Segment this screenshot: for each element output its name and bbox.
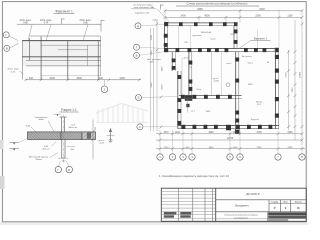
stage table bbox=[268, 200, 270, 212]
section bubble G bbox=[55, 166, 61, 172]
wall verticals bbox=[29, 38, 31, 60]
bottom dim row C bbox=[156, 148, 305, 150]
svg-text:910: 910 bbox=[99, 77, 104, 80]
left dim chain of plan bbox=[150, 28, 152, 131]
svg-text:16: 16 bbox=[297, 206, 300, 210]
svg-text:3300: 3300 bbox=[151, 34, 153, 40]
svg-text:Р: Р bbox=[274, 206, 276, 210]
top extension lines bbox=[164, 10, 166, 23]
piles on H2 bbox=[164, 48, 168, 52]
svg-text:1500: 1500 bbox=[76, 77, 82, 80]
svg-text:1000: 1000 bbox=[233, 147, 239, 149]
piles on V right bbox=[275, 55, 279, 59]
svg-text:шов обетонить t-АБ: шов обетонить t-АБ bbox=[134, 6, 154, 9]
opening circle marker bbox=[226, 83, 230, 87]
wall faint bottom line bbox=[41, 75, 101, 77]
wall H1 top bbox=[164, 22, 237, 24]
grid bubble G left bbox=[134, 44, 140, 50]
watermark blob bbox=[96, 104, 148, 123]
wall V right bbox=[274, 48, 276, 128]
top dim row 1 bbox=[165, 10, 302, 12]
svg-text:Мол.с.ф.: Мол.с.ф. bbox=[69, 126, 78, 129]
svg-text:1100: 1100 bbox=[287, 15, 293, 18]
svg-text:0-74: 0-74 bbox=[11, 71, 16, 73]
svg-text:Фрагмент 1: Фрагмент 1 bbox=[55, 9, 73, 13]
svg-text:Д: Д bbox=[137, 24, 139, 28]
doc number row bbox=[216, 199, 307, 201]
svg-text:2630: 2630 bbox=[162, 84, 164, 90]
svg-text:1400: 1400 bbox=[180, 15, 186, 18]
organization dark bars bbox=[267, 212, 269, 222]
svg-text:3790: 3790 bbox=[256, 132, 262, 134]
grid bubble A left bbox=[137, 124, 143, 130]
piles on H3 bbox=[181, 95, 185, 99]
svg-text:4000: 4000 bbox=[208, 132, 214, 134]
wall inner line bbox=[41, 44, 101, 46]
porch stub below bottom wall bbox=[234, 129, 236, 134]
wall H3 internal bbox=[179, 94, 242, 96]
wall lower line B bbox=[26, 65, 101, 67]
piles on V left bbox=[164, 34, 168, 38]
elevation marks left of beam bbox=[10, 142, 20, 144]
wall H2 main bbox=[164, 47, 279, 49]
svg-text:Разрез 1-1: Разрез 1-1 bbox=[61, 108, 77, 112]
svg-text:пол.1: пол.1 bbox=[227, 63, 233, 65]
right dim chains bbox=[288, 50, 290, 130]
svg-text:100мм: 100мм bbox=[35, 159, 42, 161]
wall mid segment line bbox=[58, 49, 88, 51]
svg-text:2Отв. верх: 2Отв. верх bbox=[8, 69, 20, 71]
extension line for 2390 dim bbox=[257, 30, 259, 48]
top dimension line bbox=[17, 23, 101, 25]
interior pier bbox=[186, 104, 189, 107]
svg-text:пом.3: пом.3 bbox=[247, 63, 253, 65]
svg-text:-0.020: -0.020 bbox=[213, 81, 220, 83]
wall V left upper bbox=[163, 23, 165, 52]
dark patch right end bbox=[87, 132, 91, 138]
grid bubbles bottom row bbox=[157, 154, 305, 160]
svg-text:2Отв.: 2Отв. bbox=[183, 57, 189, 59]
svg-text:6380: 6380 bbox=[197, 8, 203, 11]
pile below beam bbox=[61, 140, 63, 159]
grillage beam right part bbox=[82, 132, 96, 140]
svg-text:7850: 7850 bbox=[292, 87, 294, 93]
svg-text:ДП-008-Р: ДП-008-Р bbox=[246, 192, 260, 196]
svg-text:пол.2: пол.2 bbox=[210, 38, 216, 40]
signature smudges bbox=[164, 212, 177, 214]
svg-text:Фундамент: Фундамент bbox=[235, 204, 250, 208]
column above grillage bbox=[61, 117, 63, 132]
svg-text:1250: 1250 bbox=[164, 147, 170, 149]
left edge scan smudge B bbox=[0, 176, 5, 189]
svg-text:1570: 1570 bbox=[163, 132, 169, 134]
top dim row 2 bbox=[165, 16, 302, 18]
wall V jog at right of H1 bbox=[233, 26, 235, 49]
level mark top-left of plan bbox=[160, 5, 162, 10]
svg-text:(столбчатых): (столбчатых) bbox=[234, 217, 247, 219]
piles on V2 bbox=[177, 75, 181, 79]
left edge scan smudge A bbox=[0, 140, 4, 149]
elevation mark at column top bbox=[57, 114, 59, 116]
bottom dimension line bbox=[25, 79, 141, 81]
svg-text:910: 910 bbox=[29, 77, 34, 80]
svg-text:Асб.раств.: Асб.раств. bbox=[242, 55, 252, 58]
svg-text:Листов: Листов bbox=[295, 202, 303, 204]
wall lower line A bbox=[26, 59, 101, 61]
svg-text:2400x1500: 2400x1500 bbox=[201, 32, 212, 34]
level mark between labels bbox=[61, 19, 63, 25]
leaders from dim to wall bbox=[28, 25, 32, 41]
wall V2 lower-left bbox=[177, 71, 179, 129]
section bubble V bbox=[66, 166, 72, 172]
wall V2b inner bbox=[188, 52, 190, 99]
svg-text:Схема расположения ростверков: Схема расположения ростверков bbox=[224, 215, 259, 217]
svg-text:Стадия: Стадия bbox=[271, 202, 278, 204]
svg-text:12700: 12700 bbox=[227, 138, 234, 140]
axis bubble 2 below fragment bbox=[104, 80, 106, 86]
svg-text:Схема расположения ростверков: Схема расположения ростверков (столбчаты… bbox=[187, 2, 248, 6]
bottom dim row B bbox=[156, 139, 302, 141]
piles on H4 bbox=[182, 125, 186, 129]
wall top thick chord bbox=[22, 40, 101, 42]
level mark at end of dim line bbox=[100, 20, 102, 32]
bottom dim row A bbox=[156, 133, 302, 135]
svg-text:Мол.сб: Мол.сб bbox=[43, 149, 51, 151]
svg-text:4750: 4750 bbox=[286, 72, 288, 78]
grid bubble V bbox=[4, 45, 10, 51]
svg-text:4500: 4500 bbox=[204, 15, 210, 18]
wall V3 center bbox=[235, 52, 237, 129]
right side dim line of section bbox=[92, 120, 94, 160]
left grid rows bbox=[161, 192, 215, 219]
svg-text:В: В bbox=[6, 47, 8, 51]
piles on V3 bbox=[235, 58, 239, 62]
bottom extension lines to bubbles bbox=[160, 130, 302, 154]
scan edge bottom strip bbox=[0, 222, 308, 225]
svg-text:подливка т.20: подливка т.20 bbox=[135, 13, 150, 15]
middle row divider bbox=[216, 211, 307, 213]
svg-text:Фрагмент 1: Фрагмент 1 bbox=[254, 38, 268, 41]
wall bottom thick chord bbox=[22, 56, 101, 58]
wall H4 bottom bbox=[178, 124, 279, 126]
svg-text:1100: 1100 bbox=[233, 132, 239, 134]
svg-text:1.300: 1.300 bbox=[229, 34, 235, 36]
svg-text:0.010: 0.010 bbox=[152, 20, 158, 22]
piles on H1 bbox=[164, 22, 168, 26]
wall top thin line bbox=[30, 35, 101, 37]
left grid verticals bbox=[178, 188, 180, 221]
svg-text:1200: 1200 bbox=[151, 50, 153, 56]
svg-text:1100: 1100 bbox=[175, 132, 181, 134]
svg-text:Асб. раствора: Асб. раствора bbox=[147, 58, 161, 61]
svg-text:3790: 3790 bbox=[257, 147, 263, 149]
svg-text:1500: 1500 bbox=[49, 77, 55, 80]
svg-text:2390: 2390 bbox=[287, 132, 293, 134]
svg-text:А: А bbox=[139, 125, 141, 129]
main divider bbox=[215, 188, 217, 221]
grillage beam hatched left part bbox=[28, 132, 62, 140]
svg-text:1300: 1300 bbox=[119, 77, 125, 80]
section axis dash line bbox=[62, 115, 64, 164]
svg-text:Фунд.пл.: Фунд.пл. bbox=[251, 118, 260, 121]
grillage beam dark middle (pile cap) bbox=[61, 132, 82, 140]
grid bubble G bbox=[3, 32, 9, 38]
svg-text:1850: 1850 bbox=[162, 66, 164, 72]
svg-text:-0.45: -0.45 bbox=[99, 143, 105, 145]
grid bubble B left bbox=[136, 95, 142, 101]
title block outer box bbox=[161, 188, 306, 221]
svg-text:В: В bbox=[68, 168, 70, 172]
svg-text:10450: 10450 bbox=[299, 71, 301, 78]
wall band light wash bbox=[22, 41, 101, 66]
svg-text:В: В bbox=[136, 54, 138, 58]
svg-text:Б: Б bbox=[138, 96, 140, 100]
grid bubble V left bbox=[134, 52, 140, 58]
svg-text:сущ.полы: сущ.полы bbox=[192, 35, 202, 37]
svg-text:2390: 2390 bbox=[255, 15, 261, 18]
dim 100 below pile bbox=[58, 157, 69, 159]
svg-text:3800: 3800 bbox=[209, 147, 215, 149]
svg-text:30мм: 30мм bbox=[38, 119, 44, 121]
svg-text:1. Спецификацию и ведомость р: 1. Спецификацию и ведомость расхода стал… bbox=[159, 174, 229, 178]
svg-text:5900: 5900 bbox=[151, 82, 153, 88]
svg-text:По всей ростверка: По всей ростверка bbox=[134, 3, 154, 6]
svg-text:2390: 2390 bbox=[288, 147, 294, 149]
interior faint partition lines bbox=[211, 52, 213, 95]
benchmark arrow bbox=[110, 129, 112, 143]
wall V2a upper stub bbox=[171, 52, 173, 71]
grid bubble D left bbox=[135, 23, 141, 29]
svg-text:2Отв.: 2Отв. bbox=[196, 89, 202, 91]
svg-text:Лист: Лист bbox=[283, 202, 288, 204]
bottom dim ticks bbox=[159, 132, 304, 150]
svg-text:6320: 6320 bbox=[259, 8, 265, 11]
